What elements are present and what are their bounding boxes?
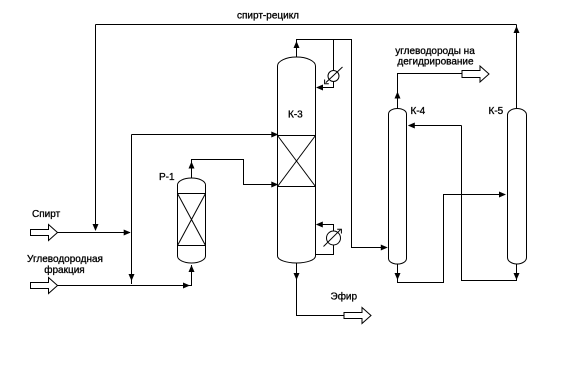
svg-text:спирт-рецикл: спирт-рецикл bbox=[237, 11, 299, 22]
svg-text:Р-1: Р-1 bbox=[159, 172, 175, 183]
svg-text:Эфир: Эфир bbox=[331, 291, 358, 303]
svg-text:Спирт: Спирт bbox=[32, 209, 61, 220]
svg-text:К-3: К-3 bbox=[288, 110, 303, 121]
svg-text:дегидрирование: дегидрирование bbox=[397, 57, 474, 68]
svg-text:фракция: фракция bbox=[44, 264, 84, 276]
svg-text:Углеводородная: Углеводородная bbox=[27, 254, 103, 265]
svg-text:К-4: К-4 bbox=[411, 106, 426, 117]
svg-text:углеводороды на: углеводороды на bbox=[395, 46, 475, 57]
svg-text:К-5: К-5 bbox=[489, 106, 504, 117]
